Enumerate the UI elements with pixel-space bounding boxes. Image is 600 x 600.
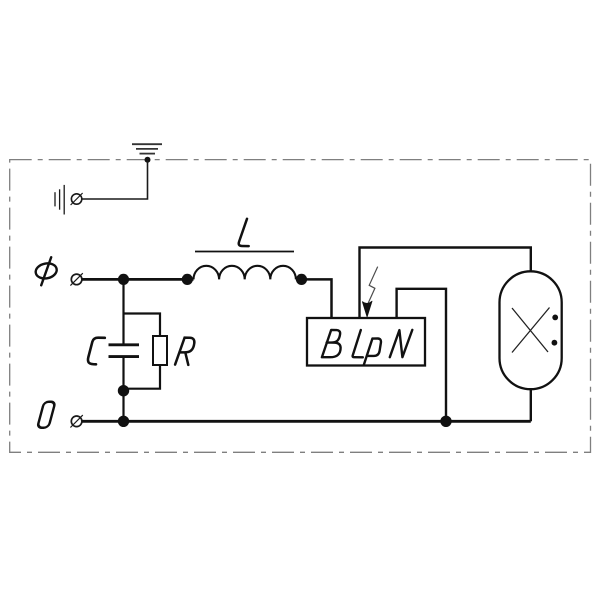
wire resistor branch bottom xyxy=(124,365,161,389)
wire choke to ignitor box xyxy=(296,279,332,318)
label L xyxy=(239,219,249,246)
ignition pulse arrowhead xyxy=(362,301,372,317)
label O (neutral) xyxy=(37,402,55,428)
node on border (earth connection dot) xyxy=(145,157,151,163)
wire ignitor to neutral xyxy=(397,289,446,422)
label Φ (phase) xyxy=(34,257,58,285)
wire capacitor branch upper xyxy=(122,278,124,344)
label L underline xyxy=(195,251,294,253)
ignition pulse zigzag xyxy=(367,267,378,306)
enclosure border (dash-dot luminaire outline) xyxy=(10,160,591,453)
label Lp xyxy=(353,330,381,365)
label B xyxy=(322,330,341,357)
resistor R body xyxy=(153,336,167,365)
ignitor box U1 xyxy=(307,318,425,366)
wire lamp bottom to neutral xyxy=(530,389,532,421)
wire resistor branch top xyxy=(124,314,161,337)
lamp electrode dot upper xyxy=(552,315,558,321)
wire neutral bus xyxy=(82,420,531,423)
terminal X1 (earth terminal circle with slash) xyxy=(71,194,81,204)
label R xyxy=(175,338,194,365)
inductor L (ballast choke coil) xyxy=(194,266,296,280)
junction dot A xyxy=(118,274,129,285)
lamp electrode dot lower xyxy=(552,340,558,346)
noiseless chassis ground symbol xyxy=(55,185,64,215)
lamp EL1 (discharge lamp outline) xyxy=(500,271,562,389)
wire earth lead xyxy=(82,160,148,199)
junction dot C (right of choke) xyxy=(296,274,307,285)
capacitor C plate top xyxy=(109,343,140,346)
junction dot D (bottom of RC branch) xyxy=(118,385,129,396)
lamp X mark xyxy=(512,308,550,353)
earth ground symbol xyxy=(132,144,162,153)
junction dot B xyxy=(182,274,193,285)
label C xyxy=(88,338,105,365)
wire phase bus xyxy=(82,278,194,281)
capacitor C plate bottom xyxy=(109,355,140,358)
terminal phase (circle with slash) xyxy=(71,274,82,285)
junction dot F (neutral at ignitor return) xyxy=(440,416,451,427)
wire ignitor top to lamp top xyxy=(360,248,531,319)
junction dot E (neutral at RC branch) xyxy=(118,416,129,427)
label N xyxy=(390,330,413,357)
terminal neutral (circle with slash) xyxy=(71,416,82,427)
wire capacitor branch lower xyxy=(122,358,124,422)
